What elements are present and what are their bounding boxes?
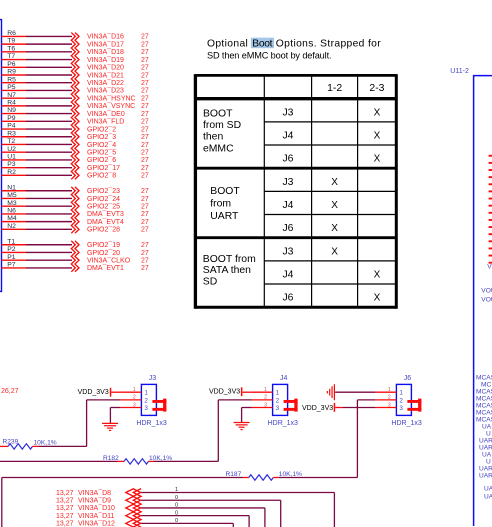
svg-text:X: X (331, 177, 338, 188)
svg-text:VIN3A¯D10: VIN3A¯D10 (78, 504, 115, 512)
pin T1 net GPIO2_19 (2, 238, 149, 249)
table row J6 group 1 (282, 154, 380, 165)
pin U2 net GPIO2_5 (2, 146, 149, 157)
svg-text:27: 27 (141, 88, 149, 95)
svg-text:R239: R239 (3, 439, 19, 446)
svg-text:VIN3A¯D11: VIN3A¯D11 (78, 512, 115, 520)
bus entry chevrons VIN3A group (71, 33, 75, 180)
svg-text:27: 27 (141, 157, 149, 164)
svg-text:DMA¯EVT1: DMA¯EVT1 (87, 264, 124, 272)
svg-text:VIN3A¯D9: VIN3A¯D9 (78, 497, 111, 505)
svg-text:GPIO2¯3: GPIO2¯3 (87, 133, 116, 141)
svg-text:27: 27 (141, 142, 149, 149)
U11-2 pin number marks (489, 155, 492, 264)
svg-text:Boot: Boot (252, 39, 272, 50)
svg-text:BOOT: BOOT (203, 108, 233, 119)
svg-text:27: 27 (141, 196, 149, 203)
svg-text:1: 1 (276, 390, 280, 397)
svg-text:eMMC: eMMC (203, 143, 234, 154)
table row J4 group 1 (282, 130, 380, 141)
svg-text:P7: P7 (7, 262, 16, 269)
net VIN3A_D10 bottom bus row (56, 503, 265, 527)
svg-text:T7: T7 (7, 53, 15, 60)
svg-text:R2: R2 (7, 169, 16, 176)
svg-text:T9: T9 (7, 38, 15, 45)
svg-text:1: 1 (388, 387, 391, 393)
svg-text:27: 27 (141, 150, 149, 157)
part U11-2 box edge (474, 76, 492, 526)
wire J4 pin3 to ground (242, 408, 252, 423)
svg-text:27: 27 (141, 111, 149, 118)
svg-text:J6: J6 (282, 154, 293, 165)
svg-text:2: 2 (388, 395, 391, 401)
svg-text:HDR_1x3: HDR_1x3 (136, 420, 166, 427)
svg-text:GPIO2¯2: GPIO2¯2 (87, 125, 116, 133)
svg-text:VDD_3V3: VDD_3V3 (78, 389, 109, 396)
pin R6 net VIN3A_D16 (2, 30, 149, 41)
svg-text:M3: M3 (7, 200, 17, 207)
svg-text:3: 3 (388, 402, 391, 408)
svg-text:DMA¯EVT3: DMA¯EVT3 (87, 210, 124, 218)
svg-text:27: 27 (141, 219, 149, 226)
svg-text:13,27: 13,27 (56, 521, 74, 527)
svg-text:GPIO2¯8: GPIO2¯8 (87, 172, 116, 180)
svg-text:2: 2 (264, 395, 267, 401)
svg-text:P6: P6 (7, 61, 16, 68)
pin P6 net VIN3A_D20 (2, 61, 149, 72)
U11-2 pin name fragments (481, 264, 492, 304)
svg-text:UAR: UAR (479, 466, 492, 473)
svg-text:27: 27 (141, 80, 149, 87)
svg-text:P2: P2 (7, 246, 16, 253)
bus entry chevrons GPIO2/DMA group (71, 241, 75, 272)
svg-text:27: 27 (141, 250, 149, 257)
svg-text:27: 27 (141, 203, 149, 210)
svg-text:GPIO2¯6: GPIO2¯6 (87, 156, 116, 164)
svg-text:1-2: 1-2 (327, 83, 342, 94)
svg-text:MCAS: MCAS (476, 410, 492, 417)
svg-text:X: X (331, 200, 338, 211)
svg-text:U: U (486, 459, 491, 466)
svg-text:27: 27 (141, 57, 149, 64)
row group label BOOT from SD then eMMC (203, 108, 241, 154)
svg-text:27: 27 (141, 65, 149, 72)
table title text (207, 39, 381, 61)
wire R182 to J4 pin2 (154, 460, 219, 462)
svg-text:VOU: VOU (481, 296, 492, 303)
net VIN3A_D8 bottom bus row (56, 487, 334, 527)
svg-text:3: 3 (144, 405, 148, 412)
svg-text:27: 27 (141, 188, 149, 195)
connector J4 HDR_1x3 (252, 375, 298, 427)
svg-text:GPIO2¯17: GPIO2¯17 (87, 164, 120, 172)
svg-text:VDD_3V3: VDD_3V3 (302, 405, 333, 412)
svg-text:N6: N6 (7, 208, 16, 215)
svg-text:VIN3A¯D17: VIN3A¯D17 (87, 40, 124, 48)
svg-text:2: 2 (399, 397, 403, 404)
wire J3 pin3 to ground (110, 408, 120, 424)
svg-text:0: 0 (175, 503, 178, 509)
resistor R239 10K,1% (0, 439, 57, 450)
svg-text:J3: J3 (282, 177, 293, 188)
svg-text:27: 27 (141, 134, 149, 141)
table row J4 group 3 (282, 269, 380, 280)
svg-text:VO: VO (487, 264, 492, 271)
connector J3 HDR_1x3 (120, 375, 166, 427)
svg-text:1: 1 (175, 487, 178, 493)
wire R187 to J6 pin2 (278, 477, 357, 479)
bus entry chevrons bottom group (126, 489, 134, 527)
pin R4 net VIN3A_VSYNC (2, 99, 149, 110)
svg-text:GPIO2¯28: GPIO2¯28 (87, 226, 120, 234)
pin N9 net VIN3A_DE0 (2, 107, 149, 118)
pin R9 net VIN3A_D21 (2, 69, 149, 80)
svg-text:UAR: UAR (479, 438, 492, 445)
svg-text:then: then (203, 132, 223, 143)
svg-text:1: 1 (144, 390, 148, 397)
svg-text:27: 27 (141, 49, 149, 56)
svg-text:P1: P1 (7, 254, 16, 261)
svg-text:27: 27 (141, 211, 149, 218)
svg-text:27: 27 (141, 34, 149, 41)
svg-text:T6: T6 (7, 45, 15, 52)
svg-text:R5: R5 (7, 76, 16, 83)
svg-text:J4: J4 (282, 269, 293, 280)
svg-text:X: X (331, 246, 338, 257)
svg-text:27: 27 (141, 119, 149, 126)
svg-text:VIN3A¯D12: VIN3A¯D12 (78, 520, 115, 527)
svg-text:UA: UA (482, 452, 492, 459)
svg-text:U11-2: U11-2 (450, 68, 469, 75)
svg-text:J6: J6 (282, 293, 293, 304)
svg-text:MCAS: MCAS (476, 417, 492, 424)
svg-text:X: X (374, 107, 381, 118)
pin T7 net VIN3A_D19 (2, 53, 149, 64)
svg-text:U: U (486, 431, 491, 438)
svg-text:2: 2 (133, 395, 136, 401)
pin N1 net GPIO2_23 (2, 184, 149, 195)
svg-text:UAR: UAR (479, 445, 492, 452)
row group label BOOT from UART (210, 186, 240, 222)
svg-text:P4: P4 (7, 123, 16, 130)
svg-text:X: X (374, 154, 381, 165)
connector J6 HDR_1x3 (375, 375, 421, 427)
svg-text:2: 2 (144, 397, 148, 404)
net VIN3A_D11 bottom bus row (56, 510, 249, 527)
pin U1 net GPIO2_6 (2, 154, 149, 165)
svg-text:GPIO2¯5: GPIO2¯5 (87, 149, 116, 157)
svg-text:R6: R6 (7, 30, 16, 37)
svg-text:VDD_3V3: VDD_3V3 (209, 388, 240, 395)
svg-text:10K,1%: 10K,1% (34, 439, 57, 446)
pin T9 net VIN3A_D17 (2, 38, 149, 49)
svg-text:13,27: 13,27 (56, 513, 74, 520)
pin T6 net VIN3A_D18 (2, 45, 149, 56)
svg-text:U1: U1 (7, 154, 16, 161)
svg-text:13,27: 13,27 (56, 490, 74, 497)
svg-text:P9: P9 (7, 115, 16, 122)
svg-text:27: 27 (141, 95, 149, 102)
svg-text:3: 3 (133, 402, 136, 408)
svg-text:P5: P5 (7, 84, 16, 91)
svg-text:VIN3A¯D21: VIN3A¯D21 (87, 71, 124, 79)
svg-text:M5: M5 (7, 192, 17, 199)
svg-text:27: 27 (141, 126, 149, 133)
power symbol VDD_3V3 at J6 (302, 403, 375, 412)
svg-text:N2: N2 (7, 223, 16, 230)
pin N2 net GPIO2_28 (2, 223, 149, 234)
svg-text:P3: P3 (7, 161, 16, 168)
svg-text:SATA then: SATA then (203, 265, 251, 276)
svg-text:27: 27 (141, 173, 149, 180)
pin N6 net DMA_EVT3 (2, 208, 149, 219)
svg-text:0: 0 (175, 510, 178, 516)
svg-text:J6: J6 (282, 223, 293, 234)
boot options table grid (195, 74, 396, 309)
pin P1 net VIN3A_CLKO (2, 254, 149, 265)
svg-text:J3: J3 (149, 375, 157, 382)
svg-text:J4: J4 (280, 375, 288, 382)
svg-text:UAR: UAR (479, 473, 492, 480)
pin P3 net GPIO2_17 (2, 161, 149, 172)
svg-text:J3: J3 (282, 107, 293, 118)
wire J4 pin2 to R182 (218, 400, 251, 462)
svg-text:N9: N9 (7, 107, 16, 114)
svg-text:J6: J6 (404, 375, 412, 382)
svg-text:VIN3A¯DE0: VIN3A¯DE0 (87, 110, 125, 118)
svg-text:J3: J3 (282, 246, 293, 257)
svg-text:T1: T1 (7, 238, 15, 245)
svg-text:27: 27 (141, 242, 149, 249)
pin P5 net VIN3A_D23 (2, 84, 149, 95)
svg-text:UART: UART (210, 211, 239, 222)
svg-text:MCAS: MCAS (476, 389, 492, 396)
wire J6 pin1 from ground (335, 391, 375, 393)
svg-text:27: 27 (141, 227, 149, 234)
table row J6 group 2 (282, 223, 338, 234)
table header labels (327, 83, 385, 94)
svg-text:VIN3A¯D19: VIN3A¯D19 (87, 56, 124, 64)
svg-text:GPIO2¯19: GPIO2¯19 (87, 241, 120, 249)
power symbol VDD_3V3 at J3 (78, 388, 121, 397)
svg-text:J4: J4 (282, 200, 293, 211)
svg-text:VOU: VOU (481, 287, 492, 294)
pin R2 net GPIO2_8 (2, 169, 149, 180)
svg-text:VIN3A¯D20: VIN3A¯D20 (87, 64, 124, 72)
svg-text:VIN3A¯FLD: VIN3A¯FLD (87, 118, 124, 126)
svg-text:MC: MC (481, 382, 491, 389)
svg-text:X: X (374, 130, 381, 141)
svg-text:VIN3A¯D22: VIN3A¯D22 (87, 79, 124, 87)
ground at J4 (234, 422, 250, 424)
svg-text:VIN3A¯HSYNC: VIN3A¯HSYNC (87, 94, 136, 102)
svg-text:13,27: 13,27 (56, 498, 74, 505)
svg-text:N1: N1 (7, 184, 16, 191)
svg-text:VIN3A¯CLKO: VIN3A¯CLKO (87, 256, 131, 264)
bus entry chevrons GPIO2 group (71, 187, 75, 233)
svg-text:UA: UA (484, 486, 492, 493)
svg-text:2-3: 2-3 (369, 83, 384, 94)
svg-text:R9: R9 (7, 69, 16, 76)
svg-text:Optional: Optional (207, 39, 248, 50)
table row J3 group 2 (282, 177, 338, 188)
svg-text:UA: UA (482, 424, 492, 431)
svg-text:27: 27 (141, 257, 149, 264)
svg-text:HDR_1x3: HDR_1x3 (268, 420, 298, 427)
net VIN3A_D12 bottom bus row (56, 518, 233, 527)
svg-text:1: 1 (399, 390, 403, 397)
wire J3 pin2 to R239 (87, 400, 121, 447)
pin M4 net DMA_EVT4 (2, 215, 149, 226)
svg-text:VIN3A¯D8: VIN3A¯D8 (78, 489, 111, 497)
pin P4 net GPIO2_2 (2, 123, 149, 134)
power symbol VDD_3V3 at J4 (209, 387, 252, 396)
row group label BOOT from SATA then SD (203, 254, 256, 288)
svg-text:26,27: 26,27 (1, 388, 19, 395)
svg-text:27: 27 (141, 165, 149, 172)
svg-text:X: X (374, 293, 381, 304)
pin P2 net GPIO2_20 (2, 246, 149, 257)
part U11-1 left box edge (0, 20, 2, 292)
svg-text:X: X (374, 269, 381, 280)
svg-text:VIN3A¯D16: VIN3A¯D16 (87, 33, 124, 41)
svg-text:BOOT from: BOOT from (203, 254, 256, 265)
svg-text:X: X (331, 223, 338, 234)
svg-text:13,27: 13,27 (56, 505, 74, 512)
pin P9 net VIN3A_FLD (2, 115, 149, 126)
svg-text:J4: J4 (282, 130, 293, 141)
svg-text:from SD: from SD (203, 120, 241, 131)
wire J6 pin2 to R187 (357, 400, 375, 478)
svg-text:3: 3 (399, 405, 403, 412)
table row J4 group 2 (282, 200, 338, 211)
ground at J6 pin1 (rotated left) (333, 384, 335, 400)
pin M5 net GPIO2_24 (2, 192, 149, 203)
svg-text:Options. Strapped for: Options. Strapped for (276, 39, 381, 50)
svg-text:N7: N7 (7, 92, 16, 99)
svg-text:UA: UA (484, 493, 492, 500)
svg-text:GPIO2¯4: GPIO2¯4 (87, 141, 116, 149)
svg-text:1: 1 (264, 387, 267, 393)
svg-text:MCAS: MCAS (476, 403, 492, 410)
svg-text:3: 3 (276, 405, 280, 412)
svg-text:MCAS: MCAS (476, 396, 492, 403)
pin T2 net GPIO2_4 (2, 138, 149, 149)
highlight on word Boot (251, 38, 274, 49)
svg-text:27: 27 (141, 41, 149, 48)
svg-text:GPIO2¯25: GPIO2¯25 (87, 202, 120, 210)
svg-text:BOOT: BOOT (210, 186, 240, 197)
svg-text:0: 0 (175, 495, 178, 501)
svg-text:R3: R3 (7, 130, 16, 137)
wire R187 left and down to page edge (2, 478, 243, 527)
net VIN3A_D9 bottom bus row (56, 495, 281, 527)
pin N7 net VIN3A_HSYNC (2, 92, 149, 103)
svg-text:GPIO2¯20: GPIO2¯20 (87, 249, 120, 257)
svg-text:R4: R4 (7, 99, 16, 106)
svg-text:GPIO2¯24: GPIO2¯24 (87, 195, 120, 203)
svg-text:3: 3 (264, 402, 267, 408)
svg-text:T2: T2 (7, 138, 15, 145)
table row J3 group 3 (282, 246, 338, 257)
pin P7 net DMA_EVT1 (2, 262, 149, 273)
svg-text:U2: U2 (7, 146, 16, 153)
pin R5 net VIN3A_D22 (2, 76, 149, 87)
pin M3 net GPIO2_25 (2, 200, 149, 211)
svg-text:DMA¯EVT4: DMA¯EVT4 (87, 218, 124, 226)
wire R239 to J3 pin2 (39, 445, 87, 447)
pin R3 net GPIO2_3 (2, 130, 149, 141)
svg-text:27: 27 (141, 72, 149, 79)
svg-text:HDR_1x3: HDR_1x3 (391, 420, 421, 427)
svg-text:SD then eMMC boot by default.: SD then eMMC boot by default. (207, 50, 331, 60)
ground at J3 (102, 422, 118, 424)
svg-text:M4: M4 (7, 215, 17, 222)
svg-text:27: 27 (141, 103, 149, 110)
svg-text:27: 27 (141, 265, 149, 272)
svg-text:1: 1 (133, 387, 136, 393)
resistor R187 10K,1% (226, 471, 303, 480)
U11-2 MCASP and UART pin names (476, 375, 492, 501)
table row J3 group 1 (282, 107, 380, 118)
svg-text:SD: SD (203, 276, 217, 287)
svg-text:VIN3A¯VSYNC: VIN3A¯VSYNC (87, 102, 135, 110)
svg-text:VIN3A¯D23: VIN3A¯D23 (87, 87, 124, 95)
table row J6 group 3 (282, 293, 380, 304)
resistor R182 10K,1% (103, 455, 172, 464)
svg-text:2: 2 (276, 397, 280, 404)
svg-text:from: from (210, 199, 231, 210)
svg-text:MCAS: MCAS (476, 375, 492, 382)
wire R182 left off-page (0, 460, 118, 462)
svg-text:0: 0 (175, 518, 178, 524)
svg-text:GPIO2¯23: GPIO2¯23 (87, 187, 120, 195)
svg-text:VIN3A¯D18: VIN3A¯D18 (87, 48, 124, 56)
